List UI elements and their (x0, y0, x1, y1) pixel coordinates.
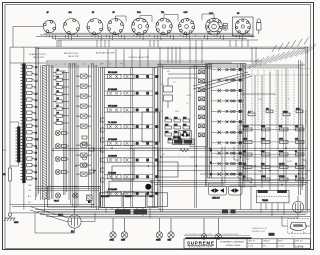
svg-text:1650: 1650 (243, 139, 247, 141)
svg-text:DWG. NO.: DWG. NO. (295, 241, 304, 243)
potentiometer P6 (216, 218, 222, 239)
pilot jack J1 (223, 24, 227, 31)
svg-text:4PL: 4PL (69, 12, 72, 14)
svg-text:7PL: 7PL (161, 12, 164, 14)
tube socket X1 (4P) (43, 12, 55, 33)
svg-text:10M: 10M (250, 111, 254, 113)
resistor bank RB1 (filament dropping) (53, 69, 66, 124)
svg-text:CONTROL SELECTOR: CONTROL SELECTOR (128, 57, 150, 59)
svg-text:R3: R3 (57, 77, 59, 79)
wire dashed drops from labels (240, 69, 310, 131)
svg-text:50M: 50M (183, 117, 187, 119)
svg-text:325: 325 (243, 151, 246, 153)
svg-text:50M: 50M (174, 117, 178, 119)
pilot lamps PL1 PL2 (54, 193, 78, 203)
switch S5 row 2 contacts (104, 89, 158, 96)
svg-text:R5: R5 (57, 91, 59, 93)
svg-text:300: 300 (268, 111, 271, 113)
svg-text:SHUNT READING: SHUNT READING (304, 110, 307, 127)
switch S7 row 8 contact (211, 141, 243, 144)
switch S7 row 9 contact (211, 152, 243, 155)
junction (solder blob) (145, 184, 151, 190)
column header labels (46, 64, 111, 66)
wire mid-left bus band (10, 187, 100, 207)
svg-text:50M: 50M (183, 124, 187, 126)
switch S5 row 6 contacts (104, 155, 158, 163)
wire right mid bus band (150, 65, 311, 187)
potentiometer P3 (156, 218, 163, 242)
svg-text:2500: 2500 (261, 126, 265, 128)
switch S7 row 11 contact (211, 172, 243, 175)
label battery volt selector (64, 52, 79, 58)
rotary switch S1 wafer (filament volts) (21, 47, 26, 183)
svg-text:R7: R7 (57, 105, 59, 107)
wire right-bank to grid links (209, 147, 307, 217)
svg-text:REVISED 7-2-40: REVISED 7-2-40 (252, 231, 265, 233)
switch S7 row 5 contact (211, 110, 243, 113)
switch S7 row 2 contact (211, 78, 243, 82)
fuse F1 (87, 195, 93, 203)
wire left links (53, 73, 69, 172)
multiplier resistor grid (239, 125, 304, 186)
svg-text:C8: C8 (109, 64, 111, 66)
svg-text:R4: R4 (57, 84, 59, 86)
labels below selector bar (28, 185, 32, 204)
switch S5 row 1 contacts (104, 72, 158, 79)
svg-text:.5: .5 (247, 94, 248, 96)
switch S5 row 7 contacts (104, 172, 158, 179)
title block frame (184, 239, 311, 249)
tube socket X4 (6P) (108, 12, 124, 35)
label control selector (128, 57, 150, 59)
svg-text:162: 162 (295, 126, 298, 128)
svg-text:25M: 25M (160, 84, 164, 86)
svg-text:A.C.: A.C. (28, 195, 32, 198)
svg-text:2000: 2000 (190, 157, 194, 159)
svg-text:LINE ADJ: LINE ADJ (212, 197, 220, 200)
svg-text:ENGLISH: ENGLISH (101, 196, 110, 198)
relay K1 coil (164, 78, 173, 108)
svg-text:V.M.: V.M. (263, 246, 267, 248)
wire socket pin drops (43, 35, 252, 41)
switch S4 contact column (76, 74, 91, 176)
switch S7 row 3 contact (211, 89, 243, 92)
labels rotated (switch position names) (248, 44, 316, 69)
svg-text:DET: DET (120, 63, 123, 65)
svg-text:5Y3: 5Y3 (236, 154, 239, 156)
resistor cluster RC1 (165, 117, 190, 143)
resistor boxes RB2 (dark pair in box) (173, 137, 195, 144)
misc value labels (texture) (47, 61, 293, 173)
svg-text:.05: .05 (160, 111, 162, 113)
ground (4, 213, 19, 224)
svg-text:GND: GND (14, 222, 19, 224)
wire central verticals (131, 63, 163, 212)
svg-text:SCHEMATIC DIAGRAM: SCHEMATIC DIAGRAM (220, 241, 244, 244)
svg-text:20: 20 (205, 147, 207, 149)
svg-text:9750: 9750 (279, 151, 283, 153)
switch S1 contact bank (27, 65, 40, 180)
svg-text:10M: 10M (168, 240, 172, 242)
wire bottom bus band (10, 210, 311, 219)
svg-text:325: 325 (295, 139, 298, 141)
switch S7 row 6 contact (211, 120, 243, 123)
wire rectifier leads (30, 207, 95, 234)
revision notes (252, 227, 267, 233)
svg-text:CA 10,000: CA 10,000 (108, 155, 117, 158)
svg-text:SELECTOR: SELECTOR (68, 56, 79, 58)
switch S6 contact column (199, 70, 205, 137)
svg-text:TRANS: TRANS (262, 199, 269, 202)
svg-text:50M: 50M (165, 131, 169, 133)
svg-text:PL 10,000: PL 10,000 (108, 122, 117, 124)
svg-text:CHANGED 4-12-39: CHANGED 4-12-39 (252, 227, 267, 230)
switch S5 row 5 contacts (104, 139, 158, 146)
svg-text:DWN. BY: DWN. BY (248, 241, 256, 243)
switch S8 (dark contacts) (115, 209, 236, 214)
svg-text:400Ω: 400Ω (110, 240, 115, 242)
svg-text:2-10-39: 2-10-39 (278, 246, 284, 248)
potentiometer P2 (121, 218, 128, 242)
switch S5 row 3 contacts (104, 106, 158, 113)
svg-text:50M: 50M (174, 124, 178, 126)
wire rails near S6 (190, 63, 207, 208)
svg-text:45M: 45M (258, 171, 262, 173)
svg-text:1250: 1250 (121, 240, 125, 242)
svg-text:INSTRUMENTS CORP.: INSTRUMENTS CORP. (188, 247, 214, 249)
wire meter leads (282, 213, 311, 226)
label auxiliary socket (96, 52, 116, 55)
tube socket X8 (octal, concentric) (206, 13, 223, 35)
vibrator contacts VC1 (178, 131, 192, 147)
svg-text:TRACED: TRACED (263, 240, 271, 243)
svg-text:40: 40 (163, 154, 165, 156)
title text schematic diagram (220, 241, 244, 248)
svg-text:40: 40 (295, 164, 297, 166)
svg-text:1249-B: 1249-B (295, 244, 304, 248)
svg-text:3300: 3300 (175, 111, 179, 113)
tube socket X3 (5P) (87, 12, 103, 35)
tube socket X6 (7PL) (156, 12, 172, 35)
svg-text:FILAMENT VOLTS: FILAMENT VOLTS (29, 53, 46, 56)
svg-text:APPD.: APPD. (278, 240, 284, 243)
svg-text:AU 10,000: AU 10,000 (108, 188, 117, 191)
switch S7 row 1 contact (211, 68, 243, 71)
svg-text:950: 950 (246, 159, 249, 161)
switch S7 row 10 contact (211, 162, 243, 165)
resistor group right-mid (248, 108, 303, 115)
label filament volts selector (29, 53, 46, 59)
svg-text:.02: .02 (273, 94, 275, 96)
svg-text:R9: R9 (57, 120, 59, 122)
svg-text:.1: .1 (178, 154, 179, 156)
svg-text:81: 81 (295, 151, 297, 153)
wire rails near S4 (64, 63, 99, 210)
svg-text:SUPREME: SUPREME (187, 240, 214, 245)
switch S5 row 8 contacts (104, 188, 158, 196)
svg-text:50M 50M: 50M 50M (173, 137, 181, 139)
svg-text:C2: C2 (55, 64, 57, 66)
svg-text:AUXILIARY SOCKET: AUXILIARY SOCKET (96, 52, 116, 55)
resistor R9 (zigzag) (180, 149, 189, 152)
svg-text:MODEL 504-B: MODEL 504-B (226, 244, 241, 247)
svg-text:50M: 50M (168, 138, 172, 140)
svg-text:D.C.: D.C. (28, 202, 32, 204)
title block small cells text (248, 240, 304, 249)
rotary switch S3 wafer (hatched) (41, 65, 50, 200)
svg-text:10,000: 10,000 (243, 126, 249, 128)
wire frame bottom drops (106, 208, 150, 219)
svg-text:80M: 80M (261, 164, 265, 166)
svg-text:8 MFD: 8 MFD (287, 161, 293, 163)
svg-text:4875: 4875 (279, 139, 283, 141)
svg-text:C3: C3 (64, 64, 66, 66)
svg-text:SC 10,000: SC 10,000 (108, 89, 117, 91)
wire grid-cap jumpers above sockets (116, 14, 215, 22)
wire left vertical rails (35, 47, 72, 207)
rotary switch S2 wafer (battery volts) (10, 122, 20, 166)
tube socket X2 (4PL) (64, 12, 80, 34)
wire switch bottoms to bus (24, 94, 275, 213)
output jack box (158, 162, 178, 177)
svg-text:C-2: C-2 (173, 82, 176, 84)
svg-text:RECT.: RECT. (58, 215, 64, 217)
svg-text:8000: 8000 (261, 139, 265, 141)
svg-text:EM 10,000: EM 10,000 (108, 72, 117, 74)
svg-text:15M: 15M (258, 99, 262, 101)
wire right vertical rails (241, 47, 308, 211)
svg-text:C1: C1 (46, 64, 48, 66)
tube socket X7 (OCT) (178, 12, 194, 35)
svg-text:75: 75 (288, 99, 290, 101)
ballast tube V2 (292, 196, 303, 213)
lamp bank (ballast lamps) (55, 131, 66, 175)
wire long mid rails (53, 148, 311, 174)
tube socket X9 (9-pin in shield box) (233, 13, 254, 36)
terminal blobs below bank (210, 149, 212, 175)
svg-text:PILOT: PILOT (54, 201, 59, 203)
wire bus (socket interconnect bundle) (36, 33, 258, 40)
svg-text:50M: 50M (165, 124, 169, 126)
svg-text:GR 10,000: GR 10,000 (108, 106, 117, 108)
potentiometer P5 (201, 218, 207, 239)
svg-text:250M: 250M (283, 111, 288, 113)
wire main horizontal rails (10, 47, 308, 67)
svg-text:1 MFD: 1 MFD (186, 95, 192, 97)
svg-text:20: 20 (295, 176, 297, 178)
junction dots (solder) (36, 147, 299, 210)
svg-text:975: 975 (279, 126, 282, 128)
pilot lamp box (48, 187, 101, 208)
svg-text:SHORT: SHORT (125, 196, 132, 198)
potentiometer P4 (168, 218, 175, 242)
svg-text:BATTERY VOLT: BATTERY VOLT (64, 52, 79, 55)
svg-text:SU 10,000: SU 10,000 (108, 139, 117, 141)
vibrator contacts VC2 (209, 186, 243, 200)
switch S5 row 4 contacts (104, 122, 158, 129)
svg-text:C4: C4 (73, 64, 75, 66)
capacitor cluster CC1 (82, 136, 94, 173)
switch S7 row 7 contact (211, 131, 243, 134)
electrolytic capacitor C1 (257, 19, 261, 34)
terminal box TB1 (100, 193, 168, 208)
svg-text:R2: R2 (57, 69, 59, 71)
svg-text:R8: R8 (57, 113, 59, 115)
svg-text:50M: 50M (183, 131, 187, 133)
svg-text:50M: 50M (296, 108, 300, 110)
potentiometer P1 (110, 218, 117, 242)
terminal block dark (269, 233, 275, 236)
resistor R1 (line cord) (3, 168, 11, 181)
wire bus risers (57, 40, 256, 68)
meter M1 (288, 219, 311, 238)
wire left edge run (9, 47, 11, 212)
svg-text:50M: 50M (165, 117, 169, 119)
svg-text:TEST: TEST (149, 196, 155, 198)
switch S7 row 4 contact (211, 99, 243, 102)
note line above title block (184, 233, 252, 239)
switch S5 left pole column (101, 118, 104, 182)
svg-text:40M: 40M (261, 151, 265, 153)
logo SUPREME (187, 240, 214, 248)
power transformer T1 (257, 190, 290, 203)
svg-text:81: 81 (243, 176, 245, 178)
push-button switch bank S7 frame (208, 64, 246, 179)
svg-text:160M: 160M (261, 176, 266, 178)
svg-text:50M: 50M (174, 131, 178, 133)
svg-text:0: 0 (47, 61, 48, 63)
svg-text:250M: 250M (156, 240, 161, 242)
svg-text:C5: C5 (82, 64, 84, 66)
rectifier tube V1 (83) (58, 215, 81, 234)
svg-text:R6: R6 (57, 98, 59, 100)
svg-text:C.H.W.: C.H.W. (248, 246, 254, 248)
pencil scrawl (handwriting) (272, 38, 309, 53)
wire border to socket X1 (13, 27, 43, 48)
selector sub-assemblies (nested boxes) (109, 112, 160, 196)
tube socket X5 (7PS) (132, 12, 149, 35)
svg-text:SW: SW (167, 71, 170, 73)
selector switch S5 frame (100, 68, 157, 208)
svg-text:162: 162 (243, 164, 246, 166)
svg-text:.25: .25 (186, 103, 188, 105)
wire diagonal feeders to label zone (193, 72, 252, 92)
